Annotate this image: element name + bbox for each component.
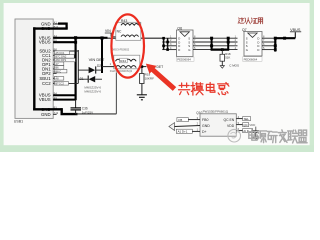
svg-text:PED06064: PED06064 [177,57,191,61]
svg-text:PED06064: PED06064 [244,57,258,61]
svg-text:D+: D+ [202,130,207,134]
svg-text:A5 CC1: A5 CC1 [55,51,65,55]
net label FB [177,116,200,122]
svg-text:R43: R43 [121,19,127,23]
Q7 part number [243,57,262,62]
wire: Q7 right pins [262,38,275,49]
svg-text:Q7: Q7 [242,28,247,32]
watermark logo circle [228,129,241,142]
svg-text:C MOS: C MOS [229,63,239,67]
svg-text:QC EN: QC EN [223,118,234,122]
watermark text 电源研发联盟 [249,130,307,143]
wire: lower VBUS pin stubs to vertical [53,95,75,99]
wire: vertical from choke R44 down to gnd rail [115,72,117,114]
wire: GND bus vertical left [33,27,35,110]
svg-text:GND: GND [41,112,51,117]
svg-text:MMSZ25V-6: MMSZ25V-6 [84,89,101,93]
wire: VBUS out run [275,32,295,40]
svg-text:Q6: Q6 [177,26,182,30]
choke pin numbers [110,34,145,66]
svg-text:G: G [246,48,248,52]
wire: CC2 row [53,82,78,84]
wire: R44 right pin to junction [140,66,147,68]
Q6 pin numbers left [170,35,172,49]
svg-text:A1 D+1: A1 D+1 [178,130,188,134]
red text 过认证用 [238,18,263,24]
svg-text:VDD: VDD [227,124,235,128]
resistor R19 [140,67,144,95]
wire: SBU2 row [53,50,78,52]
junction VBUS/vertical [74,36,77,39]
IC right pin SEL [236,115,250,121]
svg-text:PW153E/FP6601Q: PW153E/FP6601Q [203,110,229,114]
red highlight ellipse around choke [111,14,144,77]
svg-text:08G3-P50902: 08G3-P50902 [112,48,130,52]
wire: thin VBUS continuation to Q6 [108,37,164,39]
svg-text:BTCC2: BTCC2 [55,82,64,86]
choke R43 body [116,19,141,40]
svg-text:B8 C: B8 C [55,69,61,73]
red callout arrow [146,64,176,91]
choke R44 body [114,55,140,69]
wire: VBUS pin A4 run (thick) [53,37,107,39]
page border right [310,0,314,152]
svg-text:D: D [257,48,259,52]
svg-text:NC: NC [117,30,122,34]
junction at VIN drop [100,36,103,39]
svg-text:CC2: CC2 [42,81,51,86]
ESD array Q7 [242,28,262,56]
wire: vertical for CC/data labels [77,50,79,83]
junction R19 [141,65,144,68]
Q6 part number [177,57,195,61]
svg-text:B6: B6 [55,66,59,70]
svg-text:B7C DN2: B7C DN2 [55,55,67,59]
offpage connector left [169,122,200,131]
diode D1 [78,76,102,83]
wire: Q7 output thick vertical [274,37,277,52]
wire: Q6 right pins to middle [193,38,238,49]
net label VBUS right [290,28,301,32]
svg-text:1uF/25V: 1uF/25V [82,111,93,115]
wire: GND bus bottom run [33,108,77,114]
Q7 left pin numbers [235,35,237,49]
ESD array Q6 [177,26,194,56]
wire: R44 left pin [102,66,114,68]
svg-text:D2: D2 [97,64,101,68]
Q6 right pin numbers [194,35,196,49]
IC right pin QC/VDD [236,121,255,127]
wire: Q6 input junction verticals [162,37,176,51]
wire: VBUS pin B9 run (thick) [53,41,76,43]
wire: middle junction verticals and bridge [210,37,230,51]
connector pin stubs and pin numbers [53,20,59,115]
svg-text:GND: GND [202,124,210,128]
net label A1 D+1 [176,128,200,134]
ground under R19 [137,95,147,100]
connector USB1 body [15,19,53,118]
capacitor C36 [71,100,82,115]
svg-text:A12: A12 [54,111,59,115]
svg-text:DLW21SN900SQ2: DLW21SN900SQ2 [110,69,133,73]
connector pin name labels [39,22,51,118]
wire: GND bus hook at top pin [53,23,66,29]
IC right pin D- [236,127,252,133]
net label VIN [105,29,116,37]
Q7 right pin numbers [263,35,265,49]
wire: GND bus horizontal top [33,27,67,29]
wire: VBUS vertical drop x=75.6 [74,38,76,100]
svg-text:10KRF: 10KRF [145,77,155,81]
svg-text:VBUS: VBUS [39,97,51,102]
svg-text:FB0: FB0 [202,118,208,122]
red text 共模电感 [179,82,229,95]
page border bottom [0,145,314,152]
svg-text:VDD: VDD [249,123,255,127]
page border top [0,0,314,3]
svg-text:USB1: USB1 [14,119,23,123]
svg-text:R44: R44 [120,59,126,63]
svg-text:A8: A8 [55,77,59,81]
wire: VIN vertical drop [101,38,103,73]
page border left [0,0,4,152]
wire: GND thin continuation to choke drop [76,113,116,115]
svg-text:VBUS: VBUS [39,40,51,45]
svg-text:QC: QC [243,123,247,127]
svg-text:SEL: SEL [244,117,250,121]
resistor R18 [220,50,225,69]
net label boxes on connector pins [55,51,76,86]
svg-text:A6C DP1: A6C DP1 [55,58,66,62]
capacitor near VDD [253,127,259,140]
svg-text:D: D [178,48,180,52]
svg-text:FB: FB [178,118,182,122]
IC Q10 body [200,114,236,136]
svg-text:VIN: VIN [105,29,111,33]
diode D2 [78,66,102,73]
svg-text:VIN DET: VIN DET [89,57,105,62]
svg-text:G: G [188,48,190,52]
svg-text:51K: 51K [225,56,230,60]
svg-text:A7: A7 [55,62,59,66]
